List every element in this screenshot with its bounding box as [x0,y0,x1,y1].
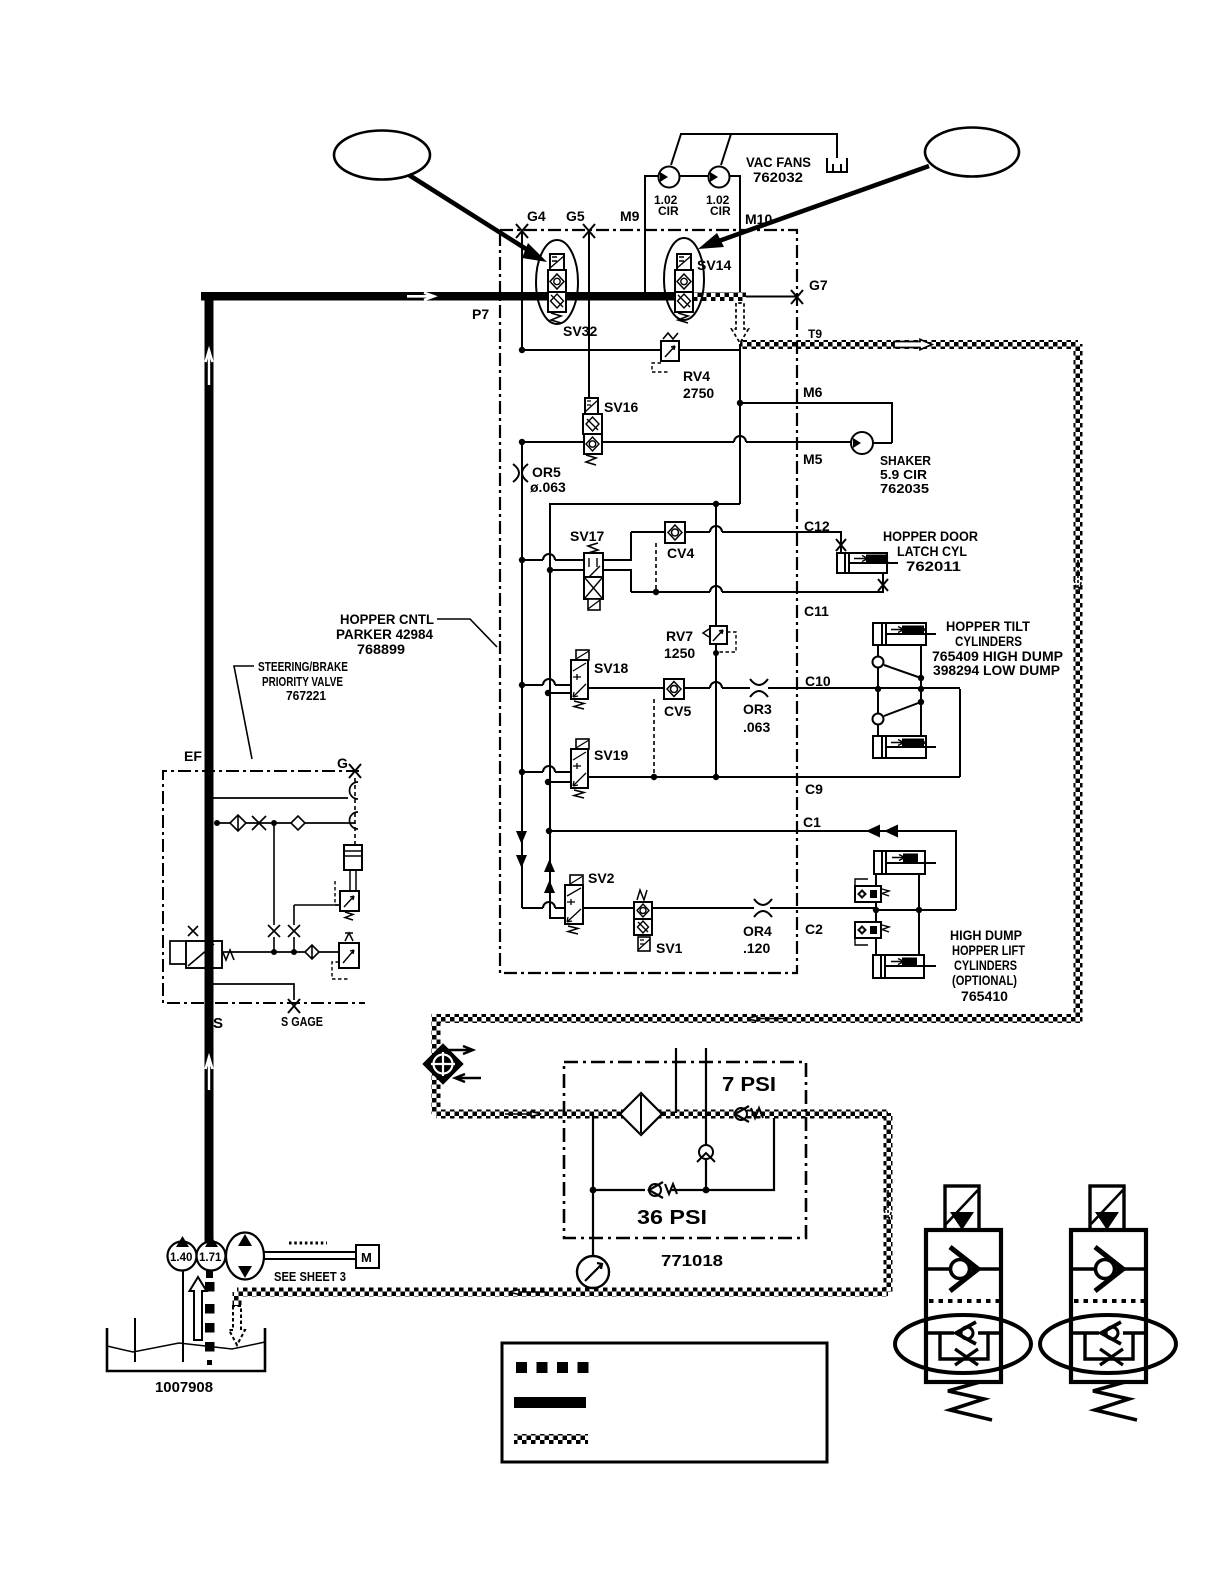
svg-text:1250: 1250 [664,645,695,661]
wire SV2 out through SV1 OR4 to C2 [583,908,956,910]
wire checkered drop into tank [233,1292,242,1308]
orifice OR3 [750,679,768,697]
svg-text:SV1: SV1 [656,940,683,956]
svg-text:CV5: CV5 [664,703,691,719]
hopper control valve dash-dot boundary [500,230,797,973]
wire tilt right side [920,645,922,736]
flow arrow on T9 [894,339,932,349]
body detail 1 [926,1230,1001,1382]
flow arrows up on return riser [544,859,555,893]
wire vertical from T9 arrow to manifold [739,344,741,504]
callout ellipse left [334,131,430,180]
check pilot lower tilt [873,689,922,736]
svg-text:(OPTIONAL): (OPTIONAL) [952,973,1017,988]
svg-text:G: G [337,755,348,771]
cylinder hopper lift upper [874,851,936,874]
flow arrow right into filter [505,1112,541,1117]
wire SV18 out to CV5 and C10 [588,682,960,688]
port G7 X mark [791,290,803,304]
svg-text:771018: 771018 [661,1253,723,1270]
svg-text:7 PSI: 7 PSI [722,1074,776,1096]
svg-text:398294 LOW DUMP: 398294 LOW DUMP [933,663,1060,678]
valve SV17 proportional [584,543,603,610]
svg-text:OR3: OR3 [743,701,772,717]
relief section detail 2 [1085,1333,1133,1359]
svg-text:HIGH DUMP: HIGH DUMP [950,928,1022,943]
highlight ellipse around SV14 [664,238,704,320]
drive shaft to motor [264,1252,356,1259]
svg-text:765410: 765410 [961,989,1008,1004]
cylinder hopper tilt upper [873,623,936,645]
wire G5 line down to SV16 [588,231,590,398]
wire C10 to tilt loop [959,689,961,777]
svg-text:T9: T9 [808,327,822,341]
svg-text:SV2: SV2 [588,870,615,886]
valve SV19 proportional [571,739,589,798]
svg-text:UP: UP [904,958,914,967]
orifice X sense 1 [268,925,280,937]
svg-text:1.71: 1.71 [199,1252,222,1264]
wire M5 line [522,436,851,442]
svg-text:M5: M5 [803,451,823,467]
svg-text:CIR: CIR [658,204,679,218]
svg-text:768899: 768899 [357,642,405,657]
flow arrow dashed down to T9 [732,303,749,343]
svg-text:G5: G5 [566,208,585,224]
svg-text:DUMP: DUMP [904,626,926,635]
valve SV2 proportional [565,875,583,934]
svg-text:P7: P7 [472,306,489,322]
svg-text:36 PSI: 36 PSI [637,1207,707,1229]
svg-text:SV16: SV16 [604,399,638,415]
flow arrow down right of filter [884,1190,892,1222]
node junction M5 left [519,439,525,445]
flow arrow dashed down into tank [229,1306,245,1345]
wire C9 line [588,776,960,778]
flow arrow up (top) [206,350,213,385]
flow divider 1.71 [197,1236,226,1271]
wire thick supply line vertical [205,292,214,1242]
spring detail 1 [948,1382,992,1420]
valve SV14 cartridge [675,254,693,323]
highlight ellipse detail 1 [895,1315,1031,1373]
svg-text:C1: C1 [803,814,821,830]
relief valve pilot lower [332,933,359,979]
svg-text:SV18: SV18 [594,660,628,676]
svg-text:OR5: OR5 [532,464,561,480]
wire M6 branch [740,403,892,443]
svg-text:C12: C12 [804,518,830,534]
valve SV1 cartridge [634,890,652,951]
svg-text:ø.063: ø.063 [530,479,566,495]
svg-text:765409 HIGH DUMP: 765409 HIGH DUMP [932,649,1063,664]
dashed stub above shaft [289,1242,327,1245]
svg-text:LATCH CYL: LATCH CYL [897,544,967,559]
svg-text:HOPPER LIFT: HOPPER LIFT [952,943,1026,958]
wire S gage branch [213,984,294,1000]
leader hopper cntl [437,619,497,647]
svg-text:HOPPER TILT: HOPPER TILT [946,619,1031,634]
priority spool valve [170,926,234,968]
svg-text:VAC FANS: VAC FANS [746,154,811,170]
flow arrow on P7 line [407,293,434,300]
svg-text:OR4: OR4 [743,923,772,939]
solenoid box detail 2 [1090,1186,1124,1230]
wire checkered segment after SV14 [686,292,746,301]
flow arrow down on right checkered [1074,560,1082,592]
svg-text:C11: C11 [804,603,829,619]
svg-text:EF: EF [184,748,202,764]
leader steering/brake [234,666,254,759]
check passage detail 2 [1071,1267,1146,1271]
wire SV17 port B [550,569,584,571]
vac fans vent symbol [827,158,847,172]
tank reservoir [107,1270,265,1371]
node junction CV4 feed [713,501,719,507]
cartridge valve detail 1 [895,1186,1031,1420]
motor vac fan 2 [709,167,730,188]
wire RV4 line [522,349,740,351]
flow arrows left on C1 [866,825,898,838]
check valve diamond 3 [305,945,319,959]
wire checkered vertical right of filter [884,1113,893,1292]
wire checkered return upper horizontal [432,1014,1078,1023]
valve SV32 cartridge [548,254,566,323]
svg-text:STEERING/BRAKE: STEERING/BRAKE [258,660,348,674]
svg-text:CV4: CV4 [667,545,694,561]
flow arrow up (bottom) [206,1057,213,1090]
flow arrow left on bottom return [509,1290,545,1295]
counterbalance valve lower [855,922,889,945]
wire P7 thick supply line horizontal [201,292,686,301]
callout leader arrow to SV32 [409,175,547,262]
node junction M6 [737,400,743,406]
svg-text:.063: .063 [743,719,770,735]
svg-text:UP: UP [905,854,915,863]
filter element [620,1093,662,1135]
callout ellipse right [925,128,1019,177]
wire checkered vertical at cooler [432,1014,441,1114]
wire SV19 port B [548,781,571,783]
wire G4 line down [521,231,523,350]
gauge [577,1256,609,1288]
svg-text:DUMP: DUMP [904,739,926,748]
wire priority check branch [216,822,355,824]
wire C12 line [631,526,841,553]
svg-text:SEE SHEET 3: SEE SHEET 3 [274,1270,346,1284]
check pilot upper tilt [873,645,922,689]
check valve 7 PSI [735,1106,763,1122]
svg-text:CYLINDERS: CYLINDERS [954,958,1017,973]
legend box [502,1343,827,1462]
svg-text:.120: .120 [743,940,770,956]
wire checkered through filter horizontal [436,1110,888,1119]
cylinder hopper door latch [837,553,898,573]
pump main [226,1233,264,1280]
port G X mark [349,764,361,778]
svg-text:SV14: SV14 [697,257,731,273]
pilot cylinder on G line [344,845,362,891]
svg-text:LOCK: LOCK [868,555,890,564]
relief valve RV4 [652,333,679,372]
orifice OR4 [754,899,772,917]
check valve diamond 2 [291,816,305,830]
svg-text:762011: 762011 [906,559,962,574]
svg-text:S: S [213,1015,223,1032]
motor vac fan 1 [659,167,680,188]
svg-text:RV4: RV4 [683,368,710,384]
svg-text:C9: C9 [805,781,823,797]
orifice X on check branch [252,816,266,830]
wire CV5 pilot dashed [653,699,655,777]
wire G pilot dashed with hose loops [354,778,356,845]
svg-text:2750: 2750 [683,385,714,401]
counterbalance valve upper [855,879,889,902]
solenoid box detail 1 [945,1186,979,1230]
flow divider 1.40 [168,1236,197,1271]
case drain square dashed line [205,1271,215,1365]
svg-text:1.40: 1.40 [170,1252,192,1264]
svg-text:M: M [361,1250,372,1265]
wire right checkered vertical [1074,344,1083,1023]
svg-text:HOPPER DOOR: HOPPER DOOR [883,529,978,544]
wire diagonals to fan motors [671,134,731,165]
wire SV17 port A [522,554,584,560]
orifice X sense 2 [288,925,300,937]
wire G4 line through OR5 down [522,442,565,908]
check valve vertical in filter [697,1145,715,1190]
check valve diamond 1 [230,815,246,831]
svg-text:PRIORITY VALVE: PRIORITY VALVE [262,675,343,689]
wire CV4 pilot dashed [655,543,657,592]
svg-text:G4: G4 [527,208,546,224]
motor box M [356,1245,379,1268]
valve SV18 proportional [571,650,589,709]
priority valve dash-dot boundary [163,771,365,1003]
suction arrow hollow up [190,1277,207,1340]
check valve CV4 [665,522,685,543]
cylinder hopper tilt lower [873,736,936,758]
wire RV7 vertical [715,504,717,777]
svg-text:G7: G7 [809,277,828,293]
motor shaker [851,432,873,454]
relief valve RV7 [703,626,736,656]
svg-text:SHAKER: SHAKER [880,453,932,468]
svg-text:767221: 767221 [286,689,326,703]
relief valve pilot upper [335,881,359,920]
highlight ellipse around SV32 [536,240,578,324]
svg-text:SV19: SV19 [594,747,628,763]
wire G7 stub [746,296,797,298]
svg-text:CIR: CIR [710,204,731,218]
node junction G4/RV4 [519,347,525,353]
dotted divider detail 1 [929,1299,999,1303]
wire CV4 top feed line [550,504,740,570]
check valve CV5 [664,679,684,699]
svg-text:C10: C10 [805,673,831,689]
wire C11 line [631,573,883,592]
svg-text:M6: M6 [803,384,823,400]
callout leader arrow to SV14 [698,166,929,249]
cooler [423,1044,481,1084]
port X mark C12 at latch cylinder [836,539,846,551]
svg-text:PARKER 42984: PARKER 42984 [336,627,433,642]
wire vac fan manifold [645,176,740,292]
cartridge valve detail 2 [1040,1186,1176,1420]
svg-text:RV7: RV7 [666,628,693,644]
wire S branch [222,951,305,953]
wire SV17 right riser [603,532,631,592]
port X mark C11 at latch cylinder [878,579,888,591]
flow arrow left on upper return [747,1016,783,1021]
wire checkered bottom return to tank [237,1288,888,1297]
port G5 X mark [583,224,595,238]
wire pilot sense verticals [274,823,340,952]
check valve 36 PSI [649,1182,677,1198]
svg-text:M10: M10 [745,211,772,227]
flow arrows down on G4 line [516,831,527,868]
filter assembly dash-dot boundary [564,1062,806,1238]
wire SV18 port B [548,692,571,694]
wire SV19 port A [522,766,571,772]
wire SV18 port A [522,679,571,685]
filter inlet verticals [676,1048,706,1145]
dotted divider detail 2 [1074,1299,1144,1303]
vac fans top line [680,134,837,158]
highlight ellipse detail 2 [1040,1315,1176,1373]
port G4 X mark [516,224,528,238]
svg-text:CYLINDERS: CYLINDERS [955,634,1022,649]
check passage detail 1 [926,1267,1001,1271]
svg-text:SV17: SV17 [570,528,604,544]
svg-text:S GAGE: S GAGE [281,1014,323,1029]
wire return riser to C1 [550,570,565,918]
svg-text:M9: M9 [620,208,640,224]
wire lift cylinder verticals [876,874,919,955]
port S GAGE X mark [288,999,300,1013]
svg-text:762032: 762032 [753,169,803,185]
wire filter bypass [593,1114,774,1257]
relief section detail 1 [940,1333,988,1359]
svg-text:SV32: SV32 [563,323,597,339]
cylinder hopper lift lower [873,955,936,978]
body detail 2 [1071,1230,1146,1382]
svg-text:1007908: 1007908 [155,1380,213,1396]
spring detail 2 [1093,1382,1137,1420]
orifice OR5 [513,464,528,482]
wire T9 checkered line [740,340,1078,349]
wire C1 line [549,831,956,910]
svg-text:762035: 762035 [880,481,929,496]
valve SV16 cartridge [583,398,602,465]
svg-text:HOPPER CNTL: HOPPER CNTL [340,612,434,627]
svg-text:C2: C2 [805,921,823,937]
svg-text:5.9 CIR: 5.9 CIR [880,467,928,482]
wire priority top branch [213,797,348,799]
